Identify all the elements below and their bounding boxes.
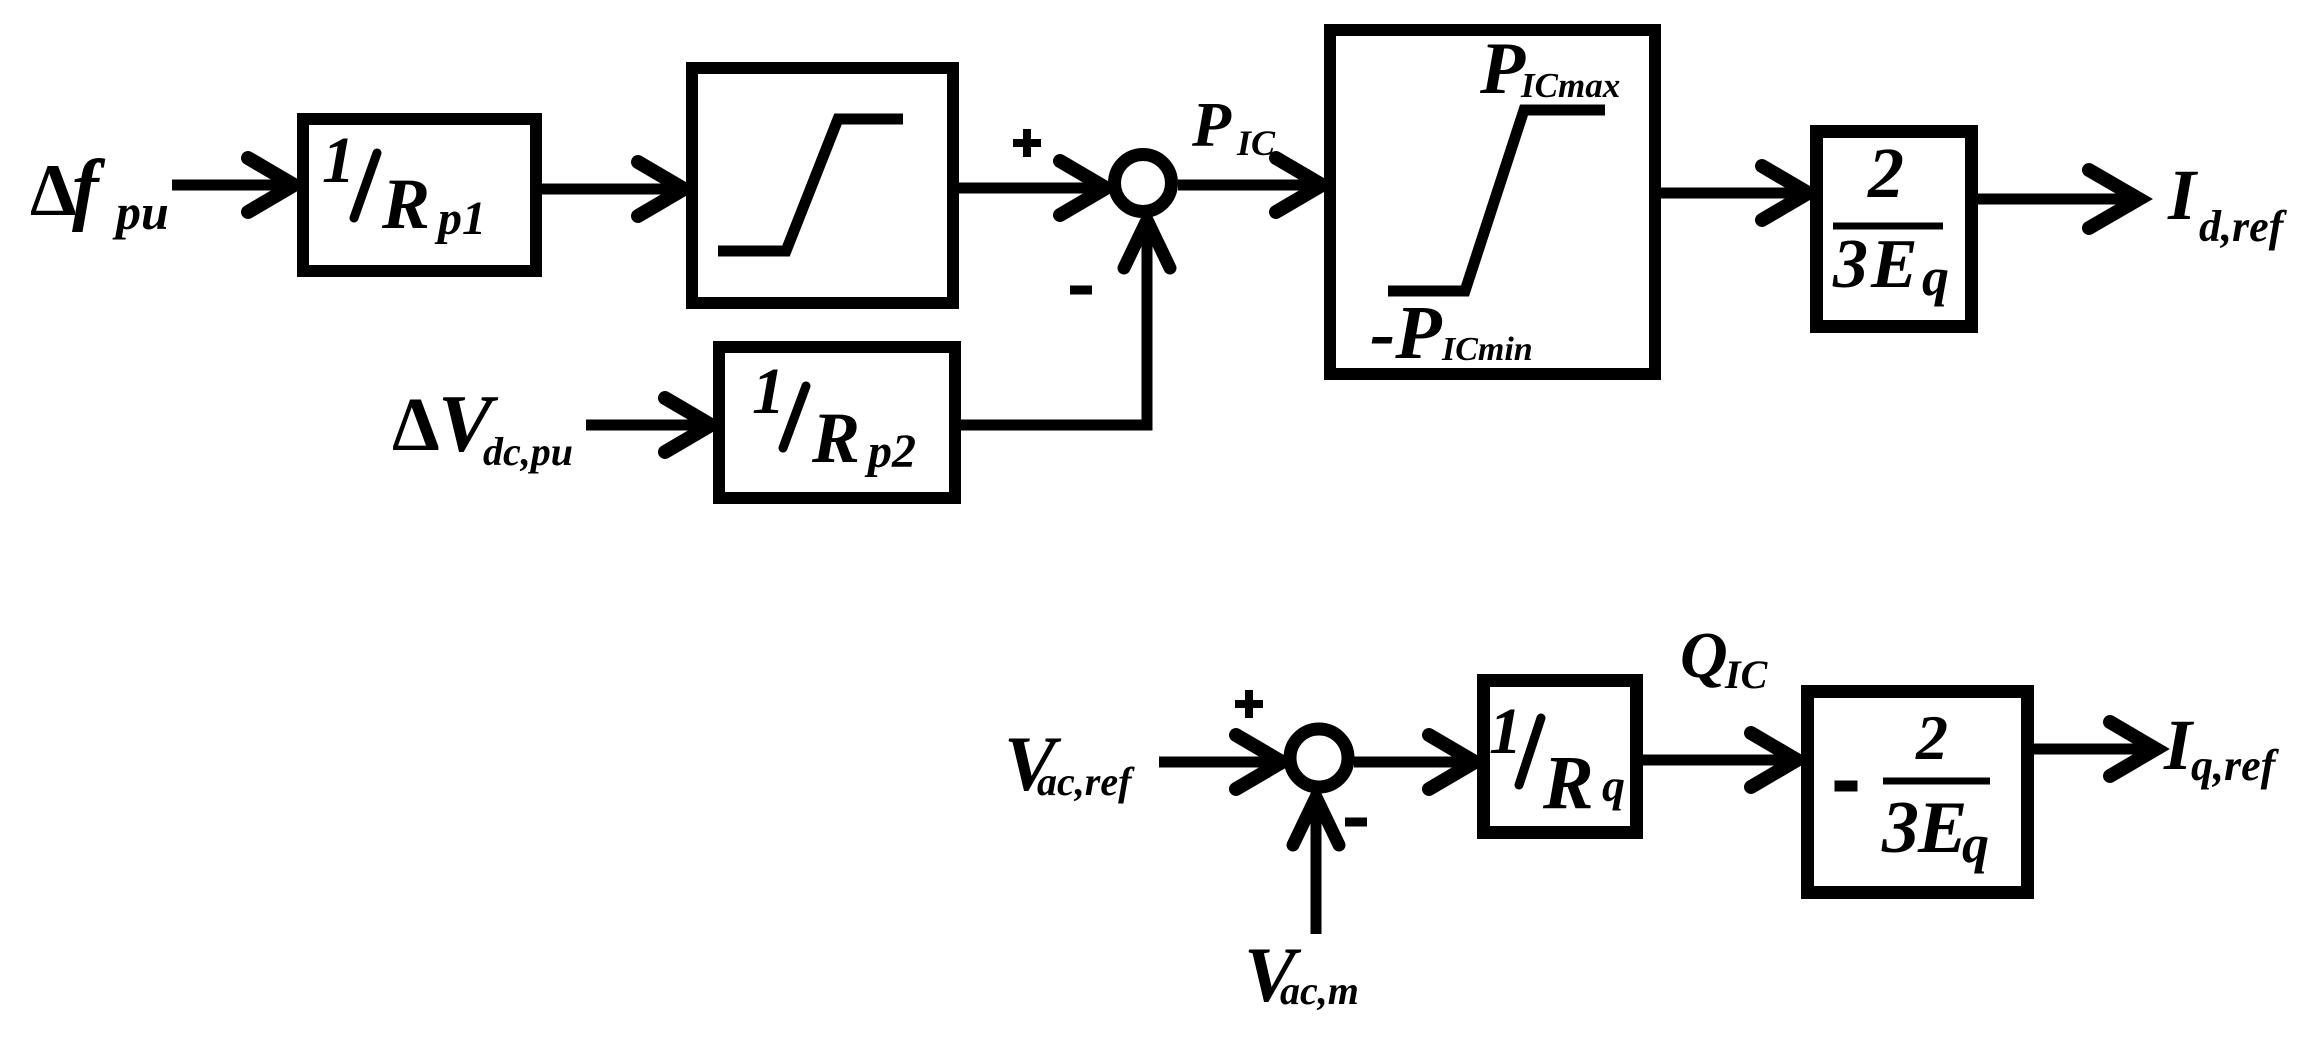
wire arrow A5 (LIM to gain block 2/3Eq) — [1661, 166, 1808, 220]
svg-text:E: E — [1870, 226, 1918, 303]
svg-text:ac,m: ac,m — [1280, 968, 1359, 1013]
svg-text:ac,ref: ac,ref — [1037, 759, 1135, 804]
minus sign at summing junction S1 — [1070, 286, 1092, 295]
block 1/Rp2 value label — [752, 355, 916, 478]
block 1/Rq box — [1484, 681, 1637, 833]
limiter block LIM box — [1330, 30, 1655, 374]
wire arrow A11 (-2/3Eq to output I_q,ref) — [2034, 722, 2156, 776]
output label I_d,ref — [2167, 155, 2288, 251]
svg-text:Δ: Δ — [392, 383, 440, 467]
gain block 2/3Eq box — [1817, 132, 1972, 327]
svg-text:1: 1 — [1489, 695, 1522, 768]
svg-text:P: P — [1479, 28, 1526, 110]
svg-text:2: 2 — [1915, 702, 1948, 773]
limiter block LIM curve — [1388, 110, 1605, 291]
output label I_q,ref — [2163, 705, 2280, 790]
input label V_ac,ref — [1004, 720, 1135, 807]
wire arrow A8 (V_ac,ref to summing junction S2) — [1159, 735, 1282, 789]
svg-text:pu: pu — [112, 184, 169, 240]
svg-text:q: q — [1922, 247, 1949, 307]
minus sign at summing junction S2 — [1345, 818, 1367, 827]
gain block -2/3Eq fraction — [1835, 702, 1991, 874]
wire arrow A7 (Delta V_dc,pu to block 1/Rp2) — [586, 398, 711, 452]
svg-text:R: R — [381, 164, 430, 244]
plus sign at summing junction S1 — [1013, 129, 1041, 157]
svg-text:1: 1 — [322, 124, 355, 197]
svg-text:p2: p2 — [864, 425, 916, 478]
svg-text:3: 3 — [1881, 787, 1919, 869]
wire arrow V2 (V_ac,m up into S2) — [1293, 797, 1339, 934]
wire arrow A3 (SAT1 to summing junction S1) — [959, 161, 1106, 215]
input label Delta V_dc,pu — [392, 378, 573, 474]
svg-text:E: E — [1917, 787, 1967, 869]
summing junction S2 — [1290, 729, 1348, 787]
block 1/Rp1 value label — [322, 124, 486, 245]
plus sign at summing junction S2 — [1235, 690, 1263, 718]
input label V_ac,m — [1244, 931, 1359, 1018]
svg-text:R: R — [1542, 741, 1594, 825]
svg-text:Q: Q — [1680, 619, 1728, 692]
svg-text:1: 1 — [752, 355, 785, 428]
svg-text:dc,pu: dc,pu — [483, 429, 573, 474]
node label Q_IC — [1680, 619, 1769, 697]
node label P_IC — [1191, 89, 1276, 163]
wire from 1/Rp2 to summing junction S1 (with corner) — [961, 235, 1147, 425]
wire arrow A4 (S1 to limiter block) — [1178, 158, 1322, 212]
block 1/Rq value label — [1489, 695, 1625, 825]
svg-text:-P: -P — [1370, 291, 1442, 375]
gain block -2/3Eq box — [1808, 692, 2028, 893]
saturation block SAT1 curve — [718, 119, 903, 251]
svg-text:2: 2 — [1867, 133, 1904, 213]
block 1/Rp2 box — [719, 347, 955, 498]
svg-text:P: P — [1191, 89, 1232, 160]
input label Delta f_pu — [30, 145, 169, 240]
limiter label P_ICmax — [1479, 28, 1620, 110]
svg-text:R: R — [811, 398, 860, 478]
wire arrow A1 (Delta f_pu to block 1/Rp1) — [172, 158, 294, 212]
wire arrow A10 (1/Rq to gain block -2/3Eq) — [1643, 733, 1797, 787]
svg-text:3: 3 — [1832, 226, 1868, 303]
summing junction S1 — [1115, 155, 1172, 212]
svg-text:IC: IC — [1724, 652, 1769, 697]
block 1/Rp1 box — [303, 119, 536, 271]
svg-text:q,ref: q,ref — [2191, 741, 2280, 790]
gain block 2/3Eq fraction — [1832, 133, 1949, 307]
saturation block SAT1 box — [692, 68, 953, 303]
wire arrow A9 (S2 to block 1/Rq) — [1354, 735, 1475, 789]
wire arrow V1 head into S1 from below — [1124, 220, 1170, 268]
limiter label -P_ICmin — [1370, 291, 1533, 375]
svg-text:q: q — [1602, 760, 1625, 811]
wire arrow A2 (1/Rp1 to saturation block) — [542, 162, 684, 216]
svg-text:q: q — [1962, 814, 1989, 874]
wire arrow A6 (2/3Eq to output I_d,ref) — [1978, 170, 2139, 228]
svg-text:ICmin: ICmin — [1441, 331, 1533, 368]
svg-text:Δ: Δ — [30, 150, 76, 232]
svg-text:ICmax: ICmax — [1520, 66, 1620, 105]
svg-text:I: I — [2167, 155, 2199, 235]
svg-text:p1: p1 — [434, 192, 486, 245]
svg-text:d,ref: d,ref — [2199, 202, 2288, 251]
